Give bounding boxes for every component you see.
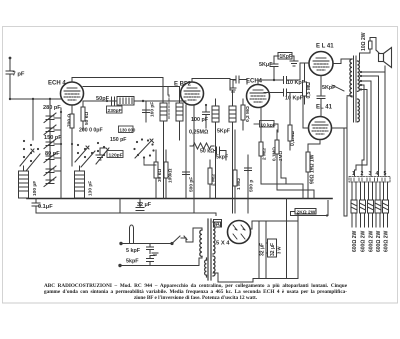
- svg-text:0,2 MΩ: 0,2 MΩ: [245, 106, 251, 122]
- svg-text:0,25MΩ: 0,25MΩ: [189, 130, 209, 136]
- trimmer capacitor 6: [44, 177, 56, 187]
- svg-text:A: A: [216, 222, 221, 228]
- svg-text:50 kΩ: 50 kΩ: [84, 112, 90, 125]
- svg-text:150 pF: 150 pF: [110, 137, 126, 143]
- trimmer capacitor 1: [44, 113, 61, 123]
- power transformer T1 core: [208, 219, 211, 280]
- trimmer stack main line: [50, 99, 61, 199]
- terminal strip: [349, 177, 390, 183]
- wire ECH4#1 plate to IF1: [72, 78, 180, 104]
- page bottom rule: [3, 302, 398, 304]
- wire EBF2 plate top: [192, 79, 230, 91]
- resistor 50k zigzag: [190, 143, 214, 149]
- svg-text:600Ω 2W: 600Ω 2W: [352, 230, 358, 252]
- wire bus to line2 connector: [119, 199, 121, 214]
- resistor 2M right: [259, 107, 263, 165]
- capacitor 5KpF between EL41s: [317, 76, 325, 117]
- coil L2 boxed: [75, 166, 85, 198]
- svg-text:32 μF: 32 μF: [260, 243, 266, 256]
- svg-text:0,1MΩ: 0,1MΩ: [272, 147, 277, 161]
- ground block B: [96, 148, 105, 160]
- capacitor 100pF: [203, 105, 210, 128]
- svg-text:280 pF: 280 pF: [43, 105, 61, 111]
- wire nested corner 3: [281, 160, 286, 184]
- resistor 0.5M grid leak: [303, 63, 307, 104]
- svg-text:500 p: 500 p: [249, 180, 255, 192]
- trimmer capacitor 2: [44, 125, 61, 135]
- resistor 10ohm 2W speaker: [360, 38, 377, 62]
- svg-text:600Ω 2W: 600Ω 2W: [384, 230, 390, 252]
- terminal numbers 1 2 3 4 5: [352, 171, 387, 177]
- trimmer capacitor 5: [44, 166, 61, 176]
- svg-text:600Ω 2W: 600Ω 2W: [369, 230, 375, 252]
- ground bus wire: [27, 198, 332, 200]
- wire antenna to tuner: [10, 98, 62, 100]
- svg-text:5kpF: 5kpF: [216, 155, 228, 161]
- resistor boxed screen EBF2: [212, 99, 219, 199]
- tube 5X4 rectifier: [228, 221, 251, 244]
- band switch cluster 1 arms: [20, 149, 40, 171]
- svg-text:600Ω 2W: 600Ω 2W: [361, 230, 367, 252]
- svg-text:600Ω 2W: 600Ω 2W: [376, 230, 382, 252]
- capacitor 10kpF box: [254, 121, 278, 133]
- svg-text:ECH4: ECH4: [246, 79, 263, 85]
- svg-text:700 Ω: 700 Ω: [67, 114, 73, 127]
- band switch cluster 1: [23, 140, 39, 162]
- svg-text:50 kΩ: 50 kΩ: [200, 149, 214, 155]
- resistor R600 #3: [368, 182, 374, 227]
- tube ECH4 #1: [61, 82, 84, 105]
- svg-text:100 pF: 100 pF: [191, 117, 209, 123]
- capacitor 5kpF line lower with ground: [147, 253, 159, 266]
- svg-text:7 pF: 7 pF: [13, 72, 25, 78]
- wire bus return drop: [286, 199, 288, 279]
- svg-text:200 0 0pF: 200 0 0pF: [79, 128, 103, 134]
- svg-text:130 000: 130 000: [120, 128, 136, 133]
- svg-text:32 μF: 32 μF: [137, 202, 152, 208]
- capacitor 32uF on bus: [136, 199, 144, 211]
- tube EL41 top: [309, 52, 333, 76]
- svg-text:90Ω 19Ω 1W: 90Ω 19Ω 1W: [310, 154, 316, 184]
- wire secondary to 5X4 plates: [213, 222, 221, 227]
- wire nested corner b+: [215, 213, 217, 216]
- resistor 0.2M grid: [241, 99, 245, 130]
- svg-text:80 pF: 80 pF: [45, 151, 60, 157]
- capacitor 230pF box: [107, 106, 123, 113]
- wire 5X4 to HT: [213, 221, 298, 282]
- band switch cluster 2 arms: [75, 146, 95, 167]
- resistor boxed plate EBF2: [229, 90, 236, 213]
- wire 2K box to bus corner: [291, 201, 329, 216]
- switch mains: [171, 236, 193, 245]
- resistor 39k: [154, 150, 158, 199]
- svg-text:5 X 4: 5 X 4: [216, 241, 230, 247]
- svg-text:5kpF: 5kpF: [126, 259, 139, 265]
- tube ECH4 #2: [247, 85, 270, 108]
- antenna: [6, 57, 14, 99]
- svg-text:10Ω 2W: 10Ω 2W: [361, 32, 367, 51]
- svg-text:120pF: 120pF: [109, 152, 123, 158]
- band switch cluster 3 arm: [96, 148, 109, 164]
- resistor R600 #5: [383, 182, 389, 227]
- fuse lamp: [130, 225, 134, 244]
- svg-text:100kΩ: 100kΩ: [168, 168, 174, 183]
- wire ECH4#2 plate to coupling line: [258, 80, 274, 85]
- resistor 0.1M grid leak 2: [288, 93, 292, 151]
- pointer line 5KpF: [332, 85, 344, 91]
- svg-text:3 W: 3 W: [277, 247, 282, 254]
- capacitor 5kpF block C: [214, 147, 226, 160]
- junction dot antenna: [9, 98, 11, 100]
- speaker: [376, 48, 392, 68]
- tap junction dots: [360, 71, 362, 91]
- capacitor 500pF EBF2 cathode: [183, 105, 190, 199]
- power transformer primary winding: [193, 228, 202, 266]
- power transformer HT secondary: [213, 222, 215, 276]
- tap wires from transformer to terminals: [355, 72, 386, 176]
- svg-text:32 μF: 32 μF: [270, 243, 276, 256]
- svg-text:5KμF: 5KμF: [259, 62, 273, 68]
- capacitor 5kpF line upper: [147, 244, 154, 254]
- svg-text:230pF: 230pF: [108, 108, 122, 114]
- wire ECH4#2 grid cap top: [230, 80, 236, 92]
- tube EL41 bottom: [309, 117, 332, 140]
- capacitor 120pF box: [107, 151, 123, 158]
- svg-text:1 MΩ: 1 MΩ: [236, 178, 242, 190]
- svg-text:5KpF: 5KpF: [217, 129, 230, 135]
- svg-text:EL 41: EL 41: [316, 105, 333, 111]
- wire switch to resistors: [144, 158, 156, 165]
- svg-text:2KΩ 2W: 2KΩ 2W: [297, 209, 316, 215]
- svg-text:1KpF: 1KpF: [280, 54, 293, 60]
- coupling wire 1 to EL41 top grid: [274, 63, 309, 84]
- capacitor 50pF: [112, 97, 115, 105]
- power transformer left heater winding: [205, 258, 207, 277]
- capacitor 160pF: [143, 101, 150, 122]
- svg-text:130 pF: 130 pF: [88, 181, 94, 196]
- resistor R600 #4: [375, 182, 381, 227]
- electrolytic 32uF #1: [258, 221, 260, 279]
- wire antenna drop to band switch: [32, 99, 34, 140]
- svg-text:0.1μF: 0.1μF: [38, 204, 53, 210]
- dashed tuning link between IF boxes: [168, 95, 170, 120]
- resistor 90ohm cathode: [306, 144, 310, 199]
- svg-text:160 pF: 160 pF: [150, 102, 156, 117]
- band switch cluster 3: [97, 142, 105, 156]
- capacitor 0.1uF: [32, 199, 40, 214]
- resistor box 130000: [119, 126, 134, 133]
- svg-text:E L 41: E L 41: [316, 44, 334, 50]
- rotary switch arm: [135, 139, 154, 158]
- feeder wire from transformer area to resistor bank: [344, 97, 347, 216]
- IF transformer 2 winding b: [176, 87, 183, 141]
- label A box: [214, 220, 222, 228]
- tube EBF2: [181, 82, 204, 105]
- svg-text:5 kpF: 5 kpF: [126, 248, 141, 254]
- trimmer capacitor 4: [44, 153, 61, 163]
- ground top right: [290, 61, 298, 66]
- resistor 0.1M right: [275, 130, 279, 176]
- wire from 1KpF to ground: [292, 56, 294, 61]
- junction dot under 2K: [326, 214, 328, 216]
- band switch cluster 2: [77, 144, 93, 158]
- wire nested corner 2: [277, 176, 314, 199]
- resistor R600 #2: [360, 182, 366, 227]
- wire speaker return: [384, 66, 386, 72]
- IF transformer box 1: [117, 97, 142, 106]
- IF transformer 2 winding a: [160, 103, 167, 199]
- resistor box 1KpF: [278, 53, 292, 60]
- wire EL41 bottom cathode: [308, 140, 320, 145]
- rotary band switch: [133, 138, 154, 158]
- mains line lower: [119, 264, 199, 266]
- resistor 1M phase: [233, 130, 237, 213]
- resistor box 2Kohm 2W: [295, 209, 316, 215]
- capacitor 500pF C: [245, 155, 252, 213]
- svg-text:2 MΩ: 2 MΩ: [262, 148, 268, 160]
- grid wire ECH4 to EBF2: [83, 100, 186, 102]
- resistor 2M phase: [208, 160, 212, 199]
- wire EL41 bottom plate branch down: [343, 128, 345, 216]
- wire nested corner 1: [261, 165, 303, 199]
- trimmer capacitor 3: [44, 139, 61, 149]
- svg-text:1MΩ: 1MΩ: [278, 151, 283, 161]
- bottom return wire: [253, 214, 298, 282]
- svg-text:10 kpF: 10 kpF: [261, 122, 276, 128]
- svg-text:150 pF: 150 pF: [44, 135, 62, 141]
- output transformer T2: [348, 56, 359, 122]
- resistor 50k screen: [81, 101, 85, 130]
- mains line upper: [120, 242, 172, 244]
- svg-text:0,5 MΩ: 0,5 MΩ: [306, 82, 312, 99]
- secondary bus wire: [36, 212, 216, 214]
- svg-text:ECH 4: ECH 4: [48, 81, 66, 87]
- electrolytic 32uF #2 boxed: [266, 221, 277, 279]
- capacitor 5KpF top right: [270, 56, 279, 80]
- node junction: [273, 79, 275, 81]
- resistor 100k: [164, 150, 168, 199]
- wire EBF2 cathode to line2: [193, 105, 195, 213]
- junction dots main wires: [32, 98, 207, 145]
- svg-text:39 kΩ: 39 kΩ: [157, 169, 163, 182]
- wire EL41 bottom plate to transformer: [332, 97, 348, 128]
- wire EL41 top plate to transformer: [333, 59, 348, 64]
- coil L1 boxed: [19, 166, 29, 198]
- svg-text:100 pF: 100 pF: [32, 181, 38, 196]
- resistor 700ohm cathode ECH4: [70, 105, 74, 166]
- resistor R600 #1: [351, 182, 357, 227]
- wire transformer bottom to feeder: [347, 95, 348, 97]
- svg-text:2 MΩ: 2 MΩ: [211, 174, 217, 186]
- capacitor on EBF2 plate line: [230, 76, 247, 84]
- svg-text:10 KpF: 10 KpF: [285, 96, 304, 102]
- coupling wire 2 to EL41 bottom grid: [264, 89, 309, 128]
